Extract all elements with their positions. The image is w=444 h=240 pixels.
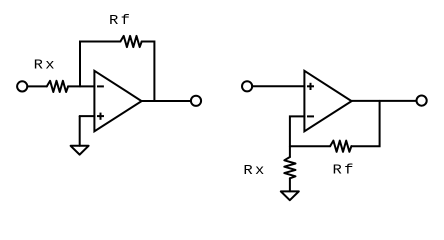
pin plus U1 — [97, 113, 104, 120]
pin plus U2 — [307, 83, 314, 90]
terminal circle input left — [17, 81, 27, 91]
wire feedback left vertical and top — [80, 42, 120, 87]
label Rf right — [333, 163, 356, 178]
wire feedback bottom right and up to output — [351, 101, 379, 146]
terminal circle output left — [191, 96, 201, 106]
wire — [27, 85, 47, 87]
terminal circle input right — [242, 81, 252, 91]
wire top right and down to output — [142, 42, 155, 102]
resistor Rx — [47, 81, 68, 92]
wire output left — [142, 100, 190, 102]
wire output right — [352, 100, 416, 102]
svg-text:Rf: Rf — [109, 14, 132, 29]
svg-text:Rx: Rx — [34, 58, 57, 73]
label Rx — [34, 58, 57, 73]
label Rf — [109, 14, 132, 29]
label Rx right — [243, 164, 266, 179]
ground left — [71, 146, 89, 155]
pin minus U1 — [97, 85, 104, 87]
resistor Rf — [120, 36, 141, 47]
wire minus input right and down to node — [290, 116, 305, 157]
wire plus input — [80, 115, 95, 117]
wire to ground right — [289, 178, 291, 191]
svg-text:Rx: Rx — [243, 164, 266, 179]
wire input right — [252, 85, 304, 87]
resistor Rf right — [330, 141, 351, 152]
pin minus U2 — [307, 115, 314, 117]
resistor Rx right — [284, 157, 295, 178]
op-amp U1 — [94, 71, 141, 132]
wire to ground left — [79, 116, 81, 146]
ground right — [281, 191, 299, 200]
wire feedback bottom left segment — [290, 145, 330, 147]
svg-text:Rf: Rf — [333, 163, 356, 178]
terminal circle output right — [417, 96, 427, 106]
wire — [68, 85, 94, 87]
op-amp U2 — [304, 71, 351, 132]
